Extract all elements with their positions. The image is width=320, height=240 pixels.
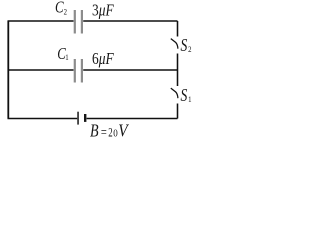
svg-text:6μF: 6μF	[92, 50, 114, 69]
svg-text:2: 2	[188, 44, 192, 54]
svg-text:V: V	[118, 120, 129, 140]
svg-text:S: S	[181, 87, 188, 106]
svg-text:1: 1	[188, 94, 192, 104]
svg-text:3μF: 3μF	[92, 1, 114, 20]
svg-text:1: 1	[65, 52, 69, 62]
svg-text:0: 0	[113, 129, 118, 140]
svg-text:=: =	[101, 124, 107, 140]
svg-text:C: C	[55, 0, 64, 17]
svg-text:B: B	[90, 122, 99, 140]
svg-text:2: 2	[64, 7, 68, 17]
svg-text:2: 2	[108, 126, 112, 140]
svg-text:S: S	[181, 37, 188, 56]
